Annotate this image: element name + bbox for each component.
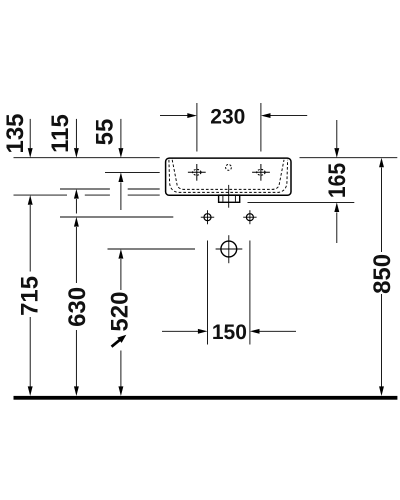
- basin inner dashed bowl lower: [169, 160, 288, 193]
- arrowhead 165 up at drain box level: [334, 202, 339, 212]
- svg-text:55: 55: [91, 119, 118, 146]
- extension line left fixing hole: [207, 241, 209, 345]
- svg-text:850: 850: [369, 254, 396, 294]
- dimension line 520 shaft upper segment: [120, 259, 122, 290]
- arrowhead 520 up at drain line: [118, 249, 123, 259]
- dimension line 230 right tail: [271, 115, 308, 117]
- wire rim line right: [300, 157, 398, 159]
- dimension line 150 left tail: [162, 330, 198, 332]
- wire 135-line (basin bottom level): [14, 194, 68, 196]
- dimension line 165 lower shaft: [336, 212, 338, 243]
- svg-text:630: 630: [64, 287, 91, 327]
- svg-text:165: 165: [324, 163, 351, 198]
- wire 55-line (tap hole level): [105, 171, 160, 173]
- fixing hole left: [201, 210, 214, 224]
- wire 202-line (drain box bottom level): [248, 201, 355, 203]
- extension line right tap hole: [260, 103, 262, 152]
- dimension line 715 shaft lower segment: [29, 317, 31, 387]
- svg-text:230: 230: [210, 106, 245, 129]
- arrowhead 520 down at floor: [118, 386, 123, 396]
- dimension line 850 shaft upper segment: [381, 168, 383, 253]
- centerline: [228, 185, 230, 208]
- washbasin outline: [166, 158, 291, 195]
- svg-text:520: 520: [107, 292, 134, 332]
- tap hole left: [188, 164, 206, 181]
- arrowhead 115 down at rim line: [74, 148, 79, 158]
- svg-text:715: 715: [17, 276, 44, 316]
- svg-text:135: 135: [2, 113, 29, 153]
- dimension line 115 lower shaft: [75, 199, 77, 214]
- extension line right fixing hole: [249, 241, 251, 345]
- wire 115-line (bowl depth level): [60, 188, 110, 190]
- dimension line 230 left tail: [160, 115, 188, 117]
- svg-text:115: 115: [47, 114, 74, 153]
- dimension line 850 shaft lower segment: [381, 294, 383, 387]
- dimension line 55 lower shaft: [120, 182, 122, 210]
- dimension line 55 upper shaft: [120, 119, 122, 148]
- wire 630-line (fixing holes level): [60, 216, 173, 218]
- arrowhead 135/715 up at basin bottom line: [28, 195, 33, 205]
- arrowhead 165 down at rim level: [334, 148, 339, 158]
- drain box: [219, 195, 240, 202]
- drain circle: [216, 235, 243, 263]
- dimension line 115 upper shaft: [75, 119, 77, 148]
- arrowhead 230 pointing right: [187, 113, 197, 118]
- arrowhead 850 up at rim level: [379, 158, 384, 168]
- arrowhead 55 up at tap hole line: [118, 172, 123, 182]
- dimension line 630 shaft lower segment: [75, 330, 77, 387]
- basin inner dashed bowl upper: [172, 160, 284, 190]
- dimension line 715 shaft upper segment: [29, 205, 31, 272]
- tap hole right: [252, 164, 270, 181]
- dimension line 150 right tail: [260, 330, 297, 332]
- arrowhead 115 up at bowl depth line: [74, 189, 79, 199]
- arrowhead 150 pointing right: [198, 329, 208, 334]
- arrowhead 850 down at floor: [379, 386, 384, 396]
- dimension line 520 shaft lower segment: [120, 351, 122, 387]
- drain box inner ticks: [222, 196, 224, 202]
- arrowhead 630 up at fixing hole line: [74, 217, 79, 227]
- overflow hole: [226, 165, 232, 171]
- arrowhead 135 down at rim line: [28, 148, 33, 158]
- dimension line 135 upper shaft: [29, 119, 31, 148]
- arrowhead 150 pointing left: [250, 329, 260, 334]
- arrowhead 630 down at floor: [74, 386, 79, 396]
- leader arrow at 520: [109, 332, 128, 349]
- arrowhead 715 down at floor: [28, 386, 33, 396]
- extension line left tap hole: [196, 103, 198, 152]
- fixing hole right: [243, 210, 256, 224]
- arrowhead 230 pointing left: [261, 113, 271, 118]
- dimension line 630 shaft upper segment: [75, 227, 77, 283]
- wire 520-line (drain level): [108, 248, 196, 250]
- floor: [14, 396, 398, 400]
- wire rim line left: [14, 157, 160, 159]
- svg-text:150: 150: [212, 321, 247, 344]
- dimension line 165 upper shaft: [336, 120, 338, 148]
- arrowhead 55 down at rim line: [118, 148, 123, 158]
